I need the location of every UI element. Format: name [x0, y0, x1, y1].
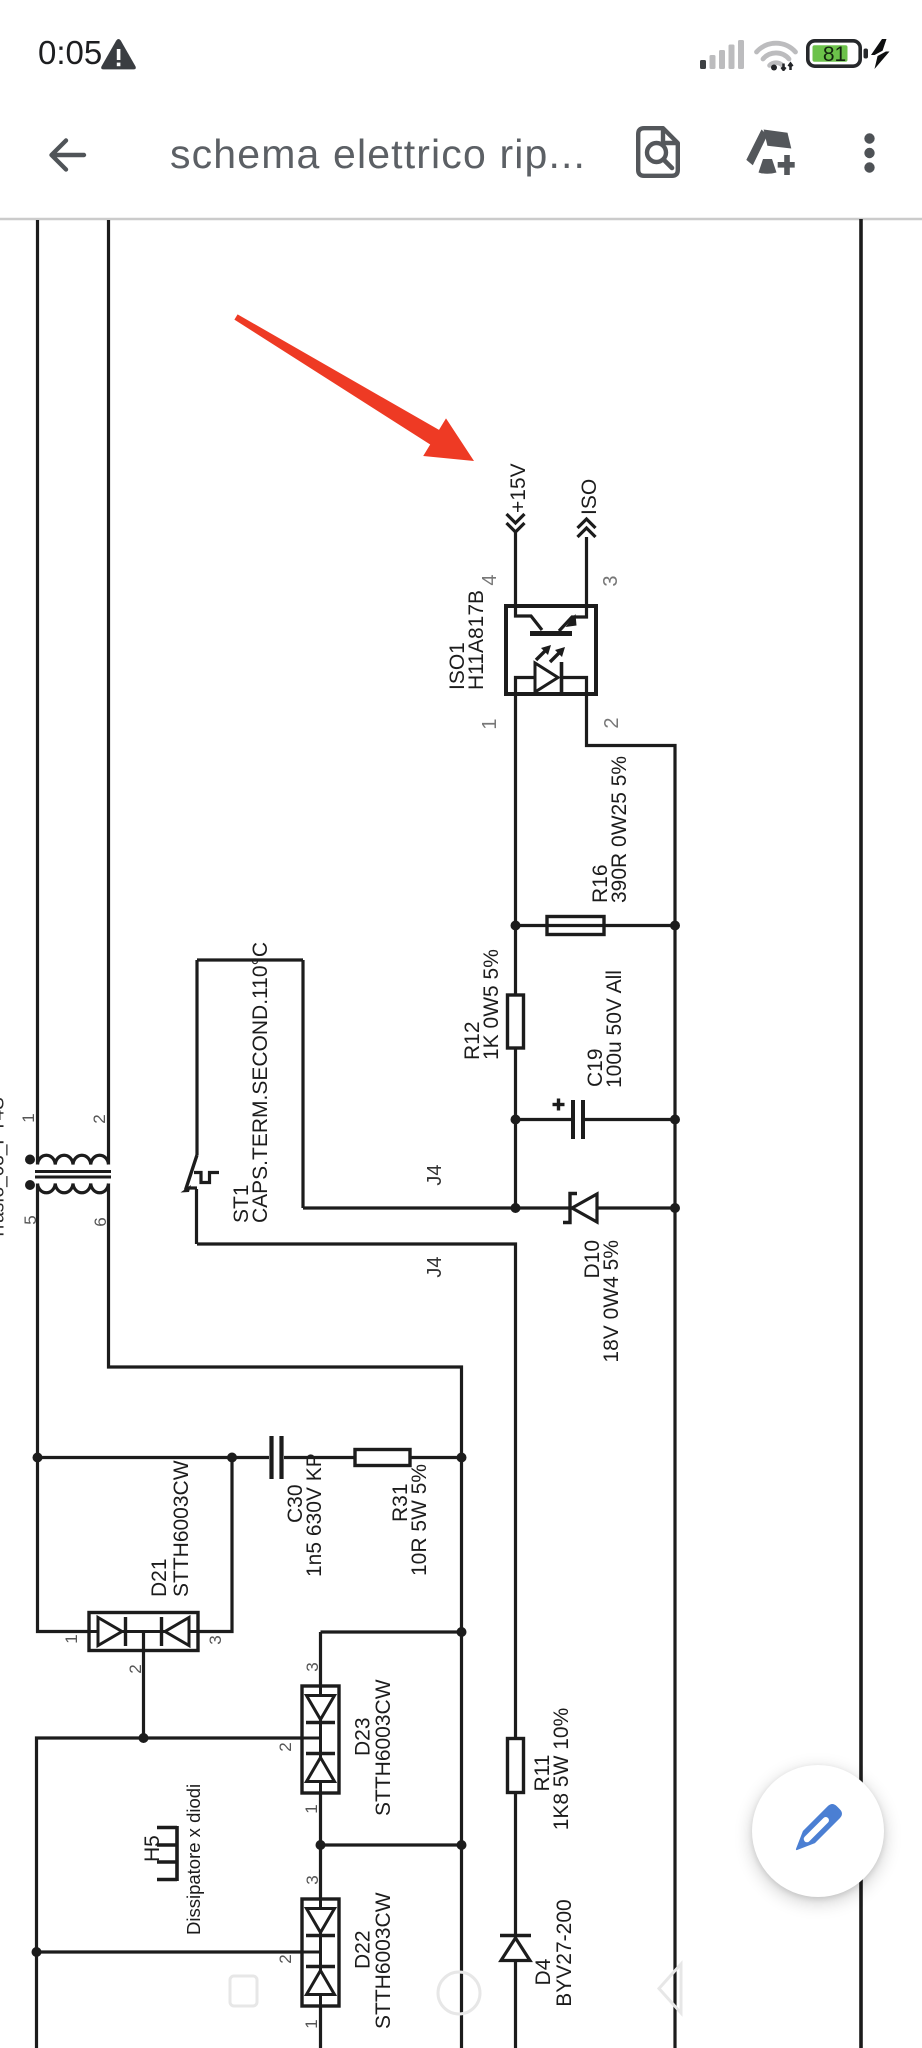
- svg-text:1: 1: [62, 1634, 81, 1643]
- wire D21 pin 3 up to snubber: [198, 1458, 232, 1632]
- svg-text:2: 2: [126, 1664, 145, 1673]
- transformer T1 secondary winding (pins 5-6): [38, 1184, 109, 1193]
- svg-text:10R 5W 5%: 10R 5W 5%: [408, 1464, 431, 1576]
- wire transformer pin 2 (to top edge): [107, 220, 110, 1165]
- svg-text:STTH6003CW: STTH6003CW: [372, 1892, 395, 2029]
- ISO1 light arrows: [536, 645, 565, 662]
- svg-text:3: 3: [303, 1875, 322, 1884]
- resistor R12: [508, 995, 524, 1048]
- app bar back arrow: [44, 132, 90, 178]
- svg-text:ISO: ISO: [578, 479, 601, 515]
- ISO1 LED: [516, 662, 587, 694]
- status charging bolt: [870, 39, 891, 69]
- wire D22 pin2 row: [37, 1950, 303, 1953]
- heatsink H5: [157, 1826, 177, 1881]
- opto-isolator ISO1 body: [506, 606, 596, 694]
- wire ISO1 pin 2 elbow to right rail: [587, 694, 676, 2048]
- svg-text:2: 2: [90, 1114, 109, 1123]
- power port +15V: [507, 463, 531, 532]
- svg-text:J4: J4: [424, 1256, 446, 1277]
- svg-text:H5: H5: [141, 1835, 164, 1862]
- app bar overflow dots: [858, 128, 882, 178]
- annotation red arrow: [234, 314, 474, 461]
- wire R16 row: [516, 924, 676, 927]
- svg-text:1n5 630V KP: 1n5 630V KP: [303, 1453, 326, 1577]
- wire transformer pin 1 (to top edge): [36, 220, 39, 1165]
- wire D22 pin 1 down: [319, 2006, 322, 2048]
- junction node D21 pin3 branch: [227, 1453, 237, 1463]
- junction node C19 right: [670, 1115, 680, 1125]
- android nav home button (faint): [438, 1972, 480, 2014]
- dual diode D21: [89, 1613, 198, 1651]
- status right icons: signal bars: [700, 40, 744, 69]
- junction node C19 left: [511, 1115, 521, 1125]
- wire ISO1 pin 4 to +15V port: [514, 532, 517, 616]
- svg-text:2: 2: [276, 1954, 295, 1963]
- svg-text:2: 2: [601, 717, 623, 728]
- wire pin1 row: [321, 1843, 462, 1846]
- junction node snubber right: [457, 1453, 467, 1463]
- junction node D22 pin2 row: [32, 1947, 42, 1957]
- svg-text:D21: D21: [148, 1558, 171, 1597]
- svg-text:STTH6003CW: STTH6003CW: [372, 1679, 395, 1816]
- capacitor C30: [272, 1436, 282, 1479]
- wire ST1 left vertical: [195, 960, 198, 1155]
- junction node D10 right: [670, 1203, 680, 1213]
- wire ST1 top horizontal: [197, 958, 303, 961]
- resistor R31: [355, 1450, 410, 1466]
- port ISO: [578, 479, 602, 537]
- svg-text:CAPS.TERM.SECOND.110°C: CAPS.TERM.SECOND.110°C: [249, 942, 272, 1223]
- svg-text:1: 1: [302, 1804, 321, 1813]
- android nav recents button (faint): [230, 1976, 257, 2006]
- svg-text:Dissipatore x diodi: Dissipatore x diodi: [183, 1784, 204, 1935]
- junction node snubber left: [33, 1453, 43, 1463]
- svg-text:100u 50V All: 100u 50V All: [603, 970, 626, 1088]
- svg-text:H11A817B: H11A817B: [465, 590, 488, 690]
- transformer T1 core: [35, 1172, 111, 1178]
- wire snubber row: [38, 1456, 462, 1459]
- transformer polarity dot winding 2: [25, 1180, 35, 1190]
- zener diode D10: [563, 1194, 597, 1223]
- svg-text:1: 1: [479, 718, 501, 729]
- wire ISO1 pin 1 down to J4 junction: [514, 694, 517, 1208]
- wire D23 pin 3 stub: [319, 1632, 322, 1686]
- svg-text:4: 4: [479, 574, 501, 585]
- junction node D10 left: [511, 1203, 521, 1213]
- svg-text:1: 1: [19, 1113, 38, 1122]
- status wifi icon: [754, 40, 798, 71]
- svg-text:1K 0W5 5%: 1K 0W5 5%: [480, 949, 503, 1060]
- svg-text:81: 81: [823, 43, 846, 66]
- wire: sheet right border: [859, 219, 863, 2048]
- app bar search-in-doc icon: [636, 126, 680, 178]
- svg-text:2: 2: [276, 1742, 295, 1751]
- svg-text:Trasfo_03_PT4S: Trasfo_03_PT4S: [0, 1097, 9, 1240]
- svg-text:18V 0W4 5%: 18V 0W4 5%: [600, 1240, 623, 1363]
- wire D23 pin3 branch: [321, 1630, 462, 1633]
- FAB edit button: [752, 1765, 884, 1897]
- status battery: [806, 39, 868, 68]
- svg-text:3: 3: [206, 1635, 225, 1644]
- junction node pin1 row left: [316, 1840, 326, 1850]
- app bar add-to-drive icon: [744, 126, 800, 178]
- svg-text:J4: J4: [424, 1164, 446, 1185]
- wire D21 pin 2 down: [142, 1632, 145, 1739]
- ISO1 phototransistor: [516, 607, 587, 634]
- wire: document page top edge: [0, 218, 922, 221]
- wire transformer pin 5 down to D21 pin 1: [38, 1184, 90, 1632]
- transformer polarity dot winding 1: [25, 1155, 35, 1165]
- svg-text:390R 0W25 5%: 390R 0W25 5%: [608, 756, 631, 903]
- wire D23 pin1 to right rail: [319, 1793, 322, 1899]
- thermal switch ST1: [181, 1155, 220, 1244]
- capacitor C19: [516, 1099, 676, 1140]
- status bar time: [38, 34, 102, 72]
- resistor R11: [508, 1739, 524, 1793]
- svg-text:STTH6003CW: STTH6003CW: [170, 1460, 193, 1597]
- status warning icon: [100, 38, 137, 72]
- wire D21 pin2 row to D23 pin2 and down: [37, 1738, 303, 2048]
- junction node pin1 row right: [457, 1840, 467, 1850]
- svg-text:1K8 5W 10%: 1K8 5W 10%: [550, 1708, 573, 1831]
- app bar title: [170, 131, 586, 178]
- dual diode D23: [302, 1686, 339, 1793]
- wire transformer pin 6 down, right, and down right rail: [109, 1184, 462, 2048]
- diode D4: [500, 1936, 531, 1961]
- junction node D21 pin2: [139, 1733, 149, 1743]
- svg-text:BYV27-200: BYV27-200: [553, 1899, 576, 2006]
- svg-text:3: 3: [303, 1662, 322, 1671]
- svg-text:+15V: +15V: [507, 463, 530, 513]
- svg-text:D4: D4: [532, 1958, 555, 1985]
- svg-text:1: 1: [302, 2019, 321, 2028]
- junction node R16 right: [670, 921, 680, 931]
- wire J4 upper net: [303, 1206, 675, 1209]
- resistor R16: [547, 917, 604, 935]
- junction node R16 left: [511, 921, 521, 931]
- svg-text:3: 3: [600, 575, 622, 586]
- android nav back button (faint): [659, 1964, 681, 2013]
- dual diode D22: [302, 1899, 339, 2006]
- wire ST1 right vertical: [301, 960, 304, 1208]
- junction node x462/D23 branch: [457, 1627, 467, 1637]
- wire ISO1 pin 3 to ISO port: [585, 537, 588, 616]
- transformer T1 primary winding (pins 1-2): [38, 1155, 109, 1164]
- wire J4 lower net: [197, 1244, 516, 2048]
